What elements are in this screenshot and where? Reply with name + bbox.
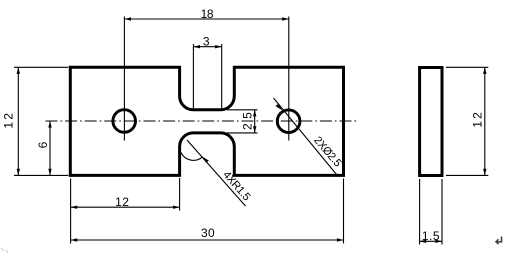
dimension 1.5 extension right	[441, 179, 443, 245]
leader 4XR1.5 arrow	[202, 156, 209, 163]
dimension 12 bottom line	[71, 206, 180, 208]
dimension 2.5 line	[254, 110, 256, 133]
dimension 18 arrow left	[124, 17, 131, 20]
dimension 30 extension right	[343, 179, 345, 244]
svg-text:3: 3	[203, 34, 210, 48]
svg-text:12: 12	[1, 111, 15, 129]
hole right	[277, 110, 300, 133]
paragraph return mark	[496, 237, 502, 245]
dimension 3 line	[193, 46, 221, 48]
leader 4XR1.5 line	[187, 140, 246, 206]
dimension 3 arrow left	[193, 45, 200, 48]
dimension 12 side arrow top	[483, 67, 486, 74]
svg-text:18: 18	[201, 7, 214, 21]
dimension 12 side line	[484, 67, 486, 175]
dimension 6 line	[49, 121, 51, 175]
hole left vertical center/extension line	[123, 17, 125, 141]
dimension 2.5 arrow top	[253, 110, 256, 117]
dimension 2.5 arrow bottom	[253, 126, 256, 133]
dimension 6 arrow top	[48, 121, 51, 128]
plate outline front view	[70, 67, 343, 175]
fillet R1.5 thin extension arc	[181, 152, 203, 160]
hole left	[113, 110, 136, 133]
svg-text:6: 6	[36, 141, 50, 148]
dimension 1.5 extension left	[419, 179, 421, 245]
dimension 30 arrow right	[337, 238, 344, 241]
hole right vertical center/extension line	[288, 17, 290, 141]
dimension 2.5 extension top	[227, 109, 258, 111]
dimension 30 extension left	[70, 179, 72, 244]
dimension 12 left arrow bottom	[17, 169, 20, 176]
dimension 6 arrow bottom	[48, 169, 51, 176]
dimension 30 arrow left	[71, 238, 78, 241]
dimension 12 left extension top	[14, 66, 68, 68]
leader 2X dia 2.5 line	[274, 98, 337, 175]
faint corner smudge	[1, 248, 8, 253]
dimension 2.5 extension bottom	[227, 132, 258, 134]
leader 2X dia 2.5 arrow	[276, 104, 283, 111]
dimension 1.5 line	[420, 240, 442, 242]
dimension 30 line	[71, 239, 344, 241]
dimension 12 side extension top	[446, 66, 488, 68]
svg-text:2.5: 2.5	[241, 112, 255, 130]
dimension 12 bottom arrow left	[71, 206, 78, 209]
svg-text:1.5: 1.5	[422, 229, 440, 243]
center line horizontal	[46, 120, 357, 122]
dimension 18 arrow right	[282, 17, 289, 20]
dimension 12 side extension bottom	[446, 174, 488, 176]
svg-text:30: 30	[201, 226, 215, 240]
dimension 1.5 arrow right	[435, 240, 442, 243]
dimension 1.5 arrow left	[420, 240, 427, 243]
dimension 3 extension left	[192, 44, 194, 109]
dimension 12 left arrow top	[17, 67, 20, 74]
dimension 18 line	[124, 18, 288, 20]
dimension 12 left line	[17, 67, 19, 175]
dimension 12 left extension bottom	[14, 174, 68, 176]
dimension 3 extension right	[221, 44, 223, 109]
side view rectangle	[420, 68, 442, 176]
dimension 12 bottom extension right	[179, 178, 181, 211]
svg-text:12: 12	[115, 195, 129, 209]
dimension 3 arrow right	[215, 45, 222, 48]
dimension 12 bottom arrow right	[173, 206, 180, 209]
svg-text:12: 12	[471, 110, 485, 128]
dimension 12 side arrow bottom	[483, 169, 486, 176]
